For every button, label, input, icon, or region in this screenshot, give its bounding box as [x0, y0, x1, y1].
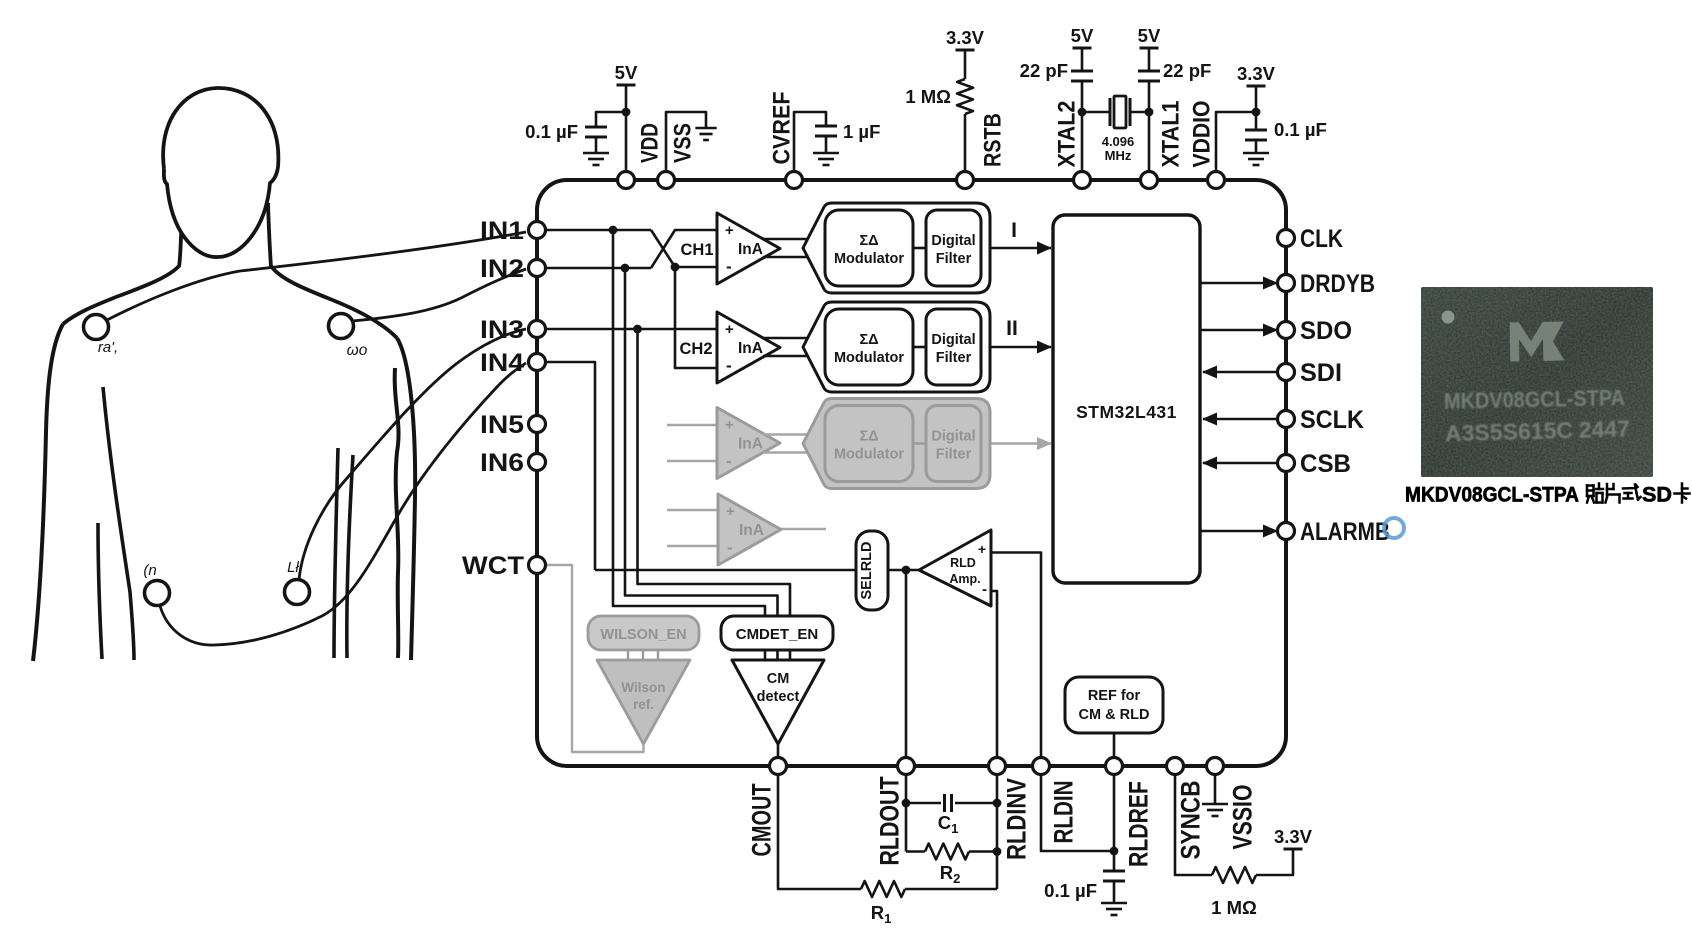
pin SCLK: [1278, 411, 1295, 428]
pin CSB: [1278, 455, 1295, 472]
junction: IN2 tap: [621, 264, 630, 273]
svg-text:ΣΔ: ΣΔ: [859, 233, 878, 249]
resistor R2: [925, 844, 969, 860]
svg-text:1 MΩ: 1 MΩ: [1211, 897, 1257, 918]
capacitor 0.1uF at RLDREF: [1103, 870, 1125, 873]
pin CVREF: [786, 172, 803, 189]
junction: CH1 minus node: [671, 263, 680, 272]
svg-text:+: +: [726, 503, 735, 520]
wire: RLD output node down to RLDOUT pin: [905, 570, 908, 766]
svg-text:5V: 5V: [1071, 25, 1094, 46]
op-amp CH3 InA (disabled grey): [717, 408, 780, 479]
caption CJK glyph: pian: [1606, 484, 1609, 497]
wire: IN3 tap down to CMDET_EN: [638, 329, 791, 616]
svg-text:ra',: ra',: [98, 339, 118, 356]
ground at RLDREF cap: [1101, 902, 1127, 905]
op-amp CH2 InA: [717, 312, 780, 383]
svg-text:RLDOUT: RLDOUT: [875, 776, 905, 865]
svg-text:detect: detect: [757, 689, 800, 705]
svg-text:5V: 5V: [615, 62, 638, 83]
svg-text:RLDIN: RLDIN: [1049, 781, 1079, 844]
op-amp CH4 InA (disabled grey): [718, 494, 781, 565]
svg-text:ΣΔ: ΣΔ: [859, 332, 878, 348]
power 5V at XTAL2: [1073, 47, 1092, 50]
wire: electrode RL to pin IN4: [160, 363, 526, 645]
wire: SCLK to MCU with arrow: [1203, 418, 1277, 421]
pin RLDOUT: [898, 758, 915, 775]
caption CJK glyph: ka: [1681, 484, 1684, 503]
svg-text:Digital: Digital: [931, 233, 975, 249]
electrode RA (right-arm, left shoulder): [84, 315, 109, 340]
svg-text:-: -: [982, 581, 987, 598]
svg-text:STM32L431: STM32L431: [1076, 402, 1177, 422]
svg-text:SDI: SDI: [1300, 359, 1342, 387]
pin IN4: [529, 354, 546, 371]
wire: CH1 minus node down to CH2 minus: [675, 267, 717, 368]
pin ALARMB: [1278, 523, 1295, 540]
wire: XTAL1 up to load cap: [1148, 81, 1151, 172]
wire: IN2 tap down to CMDET_EN: [625, 268, 778, 616]
wire: SYNCB down to pullup: [1175, 775, 1212, 876]
electrode RL (lower left): [145, 581, 170, 606]
sigma-delta modulator + digital filter CH1: [763, 238, 809, 241]
pin IN2: [529, 260, 546, 277]
block Wilson ref triangle (disabled grey): [597, 660, 690, 744]
wire: electrode LA to pin IN2: [352, 269, 526, 321]
svg-text:MHz: MHz: [1105, 148, 1132, 163]
svg-text:-: -: [727, 538, 733, 557]
junction: RLDREF node: [1110, 847, 1119, 856]
human body figure: right inner arm line A: [334, 448, 338, 658]
wire: RLDREF down to cap: [1113, 775, 1116, 872]
svg-text:Modulator: Modulator: [834, 251, 904, 267]
svg-text:Wilson: Wilson: [621, 680, 665, 695]
svg-text:Modulator: Modulator: [834, 350, 904, 366]
svg-text:ωo: ωo: [347, 342, 368, 359]
svg-text:VDDIO: VDDIO: [1189, 101, 1216, 168]
svg-text:IN5: IN5: [480, 411, 524, 439]
sigma-delta modulator + digital filter CH3 (disabled grey): [763, 433, 809, 435]
ground at VSSIO: [1202, 803, 1228, 806]
svg-text:-: -: [726, 356, 732, 375]
pin SYNCB: [1167, 758, 1184, 775]
svg-text:InA: InA: [739, 522, 764, 539]
svg-text:DRDYB: DRDYB: [1300, 270, 1375, 298]
wire: node to 3.3V: [1255, 86, 1258, 112]
wire: CMOUT down to R1: [778, 775, 861, 890]
wire: RLDOUT down: [905, 775, 908, 852]
capacitor 22pF at XTAL1: [1138, 70, 1160, 73]
IC outline (ECG analog front-end): [537, 180, 1286, 766]
svg-text:1 MΩ: 1 MΩ: [905, 86, 951, 107]
junction: IN1 tap: [609, 226, 618, 235]
svg-text:CLK: CLK: [1300, 225, 1343, 253]
svg-text:CM: CM: [767, 671, 790, 687]
human body figure: head outline: [163, 88, 278, 257]
svg-text:CH1: CH1: [680, 241, 713, 259]
resistor 1 Mohm at SYNCB: [1212, 867, 1256, 883]
pin RLDIN: [1033, 758, 1050, 775]
wire: RLD amp non-inverting input to RLDIN pin: [991, 553, 1041, 767]
svg-text:Modulator: Modulator: [834, 447, 904, 463]
pin IN6: [529, 454, 546, 471]
wire: VDD to 5V: [625, 85, 628, 172]
wire: IN4 to SELRLD line: [546, 362, 595, 570]
svg-text:IN2: IN2: [480, 255, 524, 283]
pin DRDYB: [1278, 275, 1295, 292]
wire: R1 to RLDINV net: [905, 888, 997, 891]
svg-text:+: +: [725, 222, 734, 239]
svg-text:CMOUT: CMOUT: [747, 783, 777, 856]
decorative blue arc watermark (cropped icon): [1384, 518, 1404, 538]
wire: VDDIO to 3.3V node: [1216, 112, 1256, 172]
svg-text:InA: InA: [738, 241, 763, 258]
electrode LL (lower right): [285, 580, 310, 605]
wire: CVREF to cap: [794, 112, 826, 172]
wire: RLDINV vertical net: [996, 775, 999, 890]
ground at VDD bypass cap: [583, 152, 609, 155]
crystal Y1 4.096 MHz: [1082, 111, 1110, 114]
photo: MK logo: [1510, 322, 1565, 362]
svg-text:A3S5S615C 2447: A3S5S615C 2447: [1445, 415, 1631, 446]
wire: RLDOUT to R2: [906, 850, 925, 853]
pin WCT: [529, 557, 546, 574]
wire: IN1 to crossover: [546, 229, 651, 232]
wire: IN2 to crossover: [546, 267, 651, 270]
svg-text:CMDET_EN: CMDET_EN: [736, 626, 819, 643]
svg-text:Digital: Digital: [931, 332, 975, 348]
svg-text:RSTB: RSTB: [980, 113, 1007, 167]
electrode LA (left-arm, right shoulder): [329, 314, 354, 339]
svg-text:-: -: [726, 452, 732, 471]
svg-text:SELRLD: SELRLD: [859, 542, 875, 600]
ground at CVREF cap: [813, 152, 839, 155]
svg-text:VSSIO: VSSIO: [1228, 785, 1258, 850]
pin IN1: [529, 222, 546, 239]
wire: resistor to 3.3V: [964, 50, 967, 79]
wire: CSB to MCU with arrow: [1203, 462, 1277, 465]
wire: CH2 output II to MCU: [990, 346, 1051, 349]
wire: grey ch4 output stub: [781, 528, 826, 530]
svg-text:3.3V: 3.3V: [1237, 63, 1276, 84]
svg-text:3.3V: 3.3V: [1274, 826, 1313, 847]
junction: VDDIO bypass node: [1252, 108, 1261, 117]
pin XTAL1: [1141, 172, 1158, 189]
svg-text:MKDV08GCL-STPA: MKDV08GCL-STPA: [1444, 385, 1626, 414]
pin RLDINV: [989, 758, 1006, 775]
svg-text:1 µF: 1 µF: [843, 121, 880, 142]
svg-text:RLD: RLD: [950, 556, 976, 570]
svg-text:0.1 µF: 0.1 µF: [525, 121, 578, 142]
human body figure: right arm outer edge: [397, 338, 415, 660]
svg-text:Amp.: Amp.: [949, 572, 980, 586]
svg-text:22 pF: 22 pF: [1020, 60, 1068, 81]
mux label SELRLD: [856, 531, 888, 610]
wire: SELRLD horizontal line to RLD amp output: [595, 569, 919, 572]
svg-text:CH2: CH2: [679, 340, 712, 358]
svg-text:IN4: IN4: [480, 349, 524, 377]
wire: grey ch3 input plus stub: [667, 424, 717, 426]
svg-text:+: +: [725, 417, 734, 434]
svg-text:22 pF: 22 pF: [1163, 60, 1211, 81]
human body figure: left arm outer edge: [33, 324, 63, 661]
svg-text:IN1: IN1: [480, 217, 524, 245]
power 3.3V at SYNCB: [1284, 848, 1303, 851]
photo: chip pin-1 marker dot: [1442, 311, 1455, 324]
wire: XTAL2 up to load cap: [1081, 81, 1084, 172]
op-amp RLD Amp: [919, 530, 991, 606]
wire: SDI to MCU with arrow: [1203, 371, 1277, 374]
wire: MCU to SDO with arrow: [1200, 329, 1277, 332]
svg-text:InA: InA: [738, 340, 763, 357]
wire: MCU to ALARMB with arrow: [1200, 530, 1277, 533]
svg-text:MKDV08GCL-STPA: MKDV08GCL-STPA: [1405, 484, 1579, 507]
svg-text:VSS: VSS: [670, 123, 697, 163]
junction: RLDOUT-C1 node: [902, 799, 911, 808]
op-amp CH1 InA: [717, 213, 780, 284]
wire: electrode LL to pin IN3: [299, 329, 526, 580]
wire: WILSON_EN stubs: [627, 650, 629, 660]
svg-text:(n: (n: [143, 562, 156, 579]
svg-text:RLDREF: RLDREF: [1124, 781, 1154, 867]
human body figure: right inner arm line B: [347, 455, 353, 658]
pin VSSIO: [1207, 758, 1224, 775]
human body figure: left trapezius/shoulder: [63, 266, 179, 324]
wire: grey WCT to Wilson ref: [546, 565, 644, 752]
wire: RLDIN down to RLDREF net: [1041, 775, 1114, 852]
svg-text:XTAL2: XTAL2: [1054, 101, 1081, 168]
junction: R2-RLDINV node: [993, 847, 1002, 856]
svg-text:InA: InA: [738, 436, 763, 453]
capacitor C1: [943, 794, 946, 812]
svg-text:IN3: IN3: [480, 316, 524, 344]
svg-text:5V: 5V: [1138, 25, 1161, 46]
pin RLDREF: [1106, 758, 1123, 775]
pin SDO: [1278, 322, 1295, 339]
wire: electrode RA to pin IN1: [107, 232, 526, 320]
svg-text:+: +: [725, 321, 734, 338]
power 5V at VDD: [617, 84, 636, 87]
capacitor 0.1uF at VDDIO: [1255, 112, 1258, 130]
block REF for CM & RLD: [1065, 677, 1163, 733]
capacitor 0.1uF at VDD: [585, 126, 607, 129]
svg-text:-: -: [726, 257, 732, 276]
wire: crossover IN2 up to CH1 plus: [651, 230, 717, 268]
svg-text:RLDINV: RLDINV: [1002, 778, 1032, 860]
wire: MCU to DRDYB with arrow: [1200, 282, 1277, 285]
wire: IN1 tap down to CMDET_EN: [613, 230, 765, 616]
pin VSS: [658, 172, 675, 189]
svg-text:SD: SD: [1642, 484, 1672, 507]
caption CJK glyph: shi: [1623, 487, 1635, 490]
wire: grey ch4 input plus stub: [667, 509, 718, 511]
wire: RSTB to pullup resistor: [964, 114, 967, 172]
wire: VSSIO to ground: [1214, 775, 1217, 805]
wire: REF block to RLDREF pin: [1113, 733, 1116, 766]
power 5V at XTAL1: [1140, 47, 1159, 50]
pin CLK: [1278, 230, 1295, 247]
wire: VDD node to bypass cap: [596, 112, 626, 127]
human body figure: neck right: [268, 203, 271, 267]
svg-text:Lł: Lł: [287, 559, 299, 576]
svg-text:IN6: IN6: [480, 449, 524, 477]
pin VDDIO: [1208, 172, 1225, 189]
svg-text:Digital: Digital: [931, 429, 975, 445]
svg-text:0.1 µF: 0.1 µF: [1044, 880, 1097, 901]
power 3.3V at VDDIO: [1247, 85, 1266, 88]
block CMDET_EN: [721, 616, 833, 650]
svg-text:3.3V: 3.3V: [946, 27, 985, 48]
wire: IN3 to CH2 plus: [546, 328, 717, 331]
junction: C1-RLDINV node: [993, 799, 1002, 808]
svg-text:Filter: Filter: [936, 251, 972, 267]
pin RSTB: [957, 172, 974, 189]
wire: crossover IN1 down to CH1 minus: [651, 230, 717, 267]
wire: R2 to RLDINV net: [969, 850, 997, 853]
svg-text:ΣΔ: ΣΔ: [859, 429, 878, 445]
wire: CM detect output to CMOUT pin: [777, 744, 780, 766]
svg-text:SCLK: SCLK: [1300, 406, 1364, 434]
svg-text:ALARMB: ALARMB: [1300, 518, 1390, 546]
human body figure: right torso edge: [395, 368, 399, 658]
pin XTAL2: [1074, 172, 1091, 189]
capacitor 1uF at CVREF: [815, 125, 837, 128]
junction: XTAL1 node: [1145, 108, 1154, 117]
wire: VSS to ground: [666, 112, 706, 172]
svg-text:4.096: 4.096: [1102, 134, 1135, 149]
junction: RLD output node: [902, 566, 911, 575]
svg-text:Filter: Filter: [936, 350, 972, 366]
junction: XTAL2 node: [1078, 108, 1087, 117]
svg-text:0.1 µF: 0.1 µF: [1274, 119, 1327, 140]
wire: CH1 output I to MCU: [990, 247, 1051, 250]
wire: C1 to RLDINV net: [955, 802, 997, 805]
human body figure: neck left: [179, 205, 182, 267]
svg-text:ref.: ref.: [633, 697, 654, 712]
wire: resistor to 3.3V: [1256, 849, 1293, 875]
pin VDD: [618, 172, 635, 189]
svg-text:I: I: [1011, 219, 1017, 242]
pin CMOUT: [770, 758, 787, 775]
svg-text:WCT: WCT: [462, 552, 524, 580]
junction: IN3 tap: [633, 325, 642, 334]
svg-text:+: +: [978, 541, 986, 557]
svg-text:CM & RLD: CM & RLD: [1079, 707, 1150, 723]
svg-text:WILSON_EN: WILSON_EN: [600, 627, 686, 643]
block CM detect triangle: [732, 660, 824, 744]
svg-text:Filter: Filter: [936, 447, 972, 463]
svg-text:SDO: SDO: [1300, 317, 1352, 345]
svg-text:CVREF: CVREF: [769, 92, 796, 165]
pin SDI: [1278, 364, 1295, 381]
caption CJK glyph: tie: [1586, 486, 1589, 497]
wire: grey ch3 input minus stub: [667, 460, 717, 462]
svg-text:SYNCB: SYNCB: [1176, 781, 1206, 860]
power 3.3V at RSTB: [956, 49, 975, 52]
wire: RLD amp inverting input to RLDINV pin: [991, 591, 997, 766]
svg-text:II: II: [1006, 317, 1018, 340]
pin IN5: [529, 416, 546, 433]
svg-text:VDD: VDD: [637, 123, 664, 163]
capacitor 22pF at XTAL2: [1071, 70, 1093, 73]
pin IN3: [529, 321, 546, 338]
resistor 1 Mohm at RSTB: [957, 79, 973, 114]
wire: grey ch4 input minus stub: [667, 545, 718, 547]
svg-text:CSB: CSB: [1300, 450, 1351, 478]
sigma-delta modulator + digital filter CH2: [763, 337, 809, 340]
photo: MKDV08GCL-STPA SD NAND chip: [1421, 287, 1653, 477]
resistor R1: [861, 881, 905, 897]
wire: RLDOUT node to C1: [906, 802, 941, 805]
wire: CH3 grey output to MCU: [991, 442, 1051, 444]
MCU block U2 STM32L431: [1053, 215, 1200, 583]
human body figure: left torso/armpit line: [103, 387, 134, 660]
ground at VDDIO cap: [1243, 152, 1269, 155]
svg-text:XTAL1: XTAL1: [1158, 101, 1185, 168]
human body figure: right trapezius/shoulder: [271, 266, 397, 338]
block WILSON_EN (disabled grey): [588, 616, 699, 650]
wire: CMDET_EN stubs: [764, 650, 767, 660]
ground at VSS: [695, 127, 716, 130]
svg-text:REF for: REF for: [1088, 688, 1141, 704]
junction: VDD bypass node: [622, 108, 631, 117]
human body figure: left inner arm line: [98, 523, 102, 659]
